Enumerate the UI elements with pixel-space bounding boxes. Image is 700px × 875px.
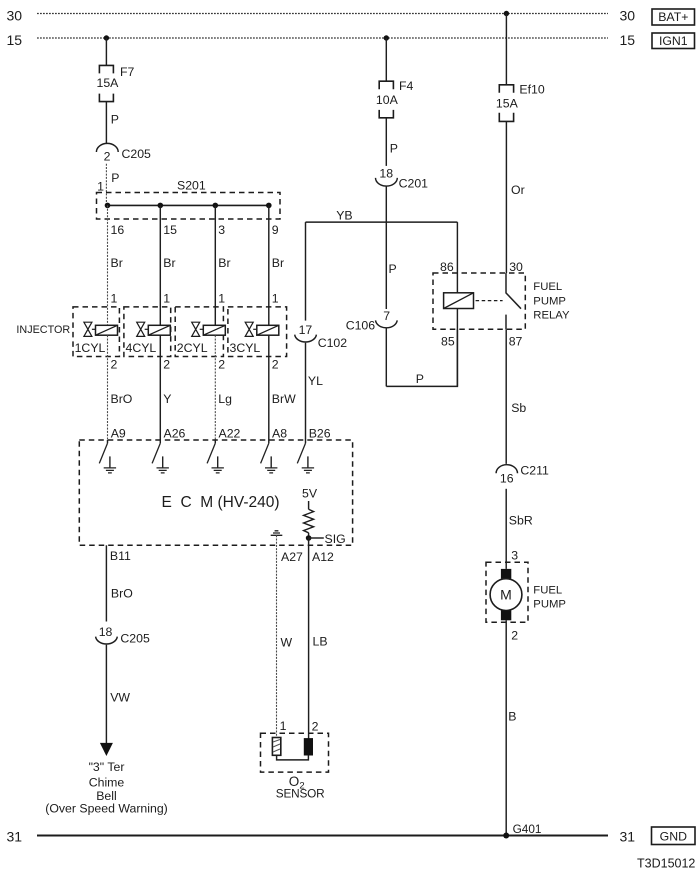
svg-text:2: 2 (312, 719, 319, 733)
svg-text:C205: C205 (122, 147, 152, 161)
svg-text:85: 85 (441, 334, 455, 348)
svg-text:B: B (508, 710, 516, 724)
injector 3CYL (228, 307, 287, 357)
wire injector 1CYL to ECM pin A9 (107, 335, 109, 440)
svg-text:15: 15 (7, 32, 23, 48)
wire C211 to fuel pump (505, 489, 507, 569)
svg-text:2: 2 (163, 357, 170, 371)
svg-text:18: 18 (379, 167, 393, 181)
ground inside ECM for pin A9 (104, 456, 116, 473)
svg-text:Br: Br (218, 256, 230, 270)
svg-text:A27: A27 (281, 550, 303, 564)
wire 15 to F7 (105, 38, 107, 65)
wire bus 31 (37, 835, 608, 837)
junction splice 2 (158, 203, 164, 209)
svg-text:A22: A22 (219, 427, 241, 441)
svg-text:P: P (416, 372, 424, 386)
svg-text:15A: 15A (97, 76, 120, 90)
label FUEL PUMP (533, 585, 566, 611)
svg-text:F7: F7 (120, 65, 135, 79)
svg-text:2: 2 (111, 357, 118, 371)
svg-text:15A: 15A (496, 97, 519, 111)
wire YB horizontal (306, 221, 458, 223)
O2 sensor (261, 733, 329, 800)
svg-text:SENSOR: SENSOR (276, 787, 325, 801)
fuse F7 (99, 65, 113, 101)
svg-text:S201: S201 (177, 179, 206, 193)
svg-text:FUEL: FUEL (533, 281, 562, 293)
ECM U1 (HV-240) (79, 440, 352, 545)
svg-text:3: 3 (511, 549, 518, 563)
svg-text:FUEL: FUEL (533, 585, 562, 597)
fuse Ef10 (499, 85, 513, 122)
connector C211 pin 16 (496, 464, 549, 486)
wire bus 15 (37, 37, 608, 39)
svg-text:3CYL: 3CYL (230, 341, 261, 355)
connector C205 pin 2 (96, 143, 151, 163)
junction on bus 15 at F7 column (104, 35, 109, 40)
svg-text:9: 9 (272, 223, 279, 237)
wire bus 30 (37, 13, 608, 15)
svg-text:"3" Ter: "3" Ter (89, 760, 125, 774)
wire fuel pump to G401 (505, 620, 507, 835)
wire C205 to chime bell (105, 645, 107, 744)
wire F7 to C205 (105, 102, 107, 144)
svg-text:3: 3 (218, 223, 225, 237)
wire resistor to SIG node (308, 533, 310, 538)
wire 15 to F4 (385, 38, 387, 81)
svg-text:2: 2 (218, 357, 225, 371)
svg-text:Lg: Lg (218, 392, 232, 406)
terminal box BAT+ (652, 9, 695, 25)
svg-text:M: M (500, 587, 512, 603)
svg-text:C102: C102 (318, 336, 348, 350)
wire 30 to Ef10 (505, 14, 507, 85)
fuse F4 (379, 81, 393, 118)
svg-text:C106: C106 (346, 319, 376, 333)
svg-text:B26: B26 (309, 427, 331, 441)
wire S201 to injector 4CYL (159, 205, 161, 325)
net label SIG (309, 532, 346, 546)
svg-text:1: 1 (280, 719, 287, 733)
svg-text:GND: GND (660, 830, 687, 844)
svg-text:Or: Or (511, 183, 525, 197)
junction splice 4 (266, 203, 272, 209)
ground inside ECM for pin A22 (212, 456, 224, 473)
svg-text:LB: LB (313, 635, 328, 649)
svg-text:SIG: SIG (325, 532, 346, 546)
svg-text:86: 86 (440, 260, 454, 274)
wire A27 ground to O2 sensor pin 1 (W) (276, 535, 278, 737)
svg-text:1: 1 (111, 292, 118, 306)
svg-text:Ef10: Ef10 (519, 83, 544, 97)
wire 5V to resistor (308, 501, 310, 509)
svg-text:1: 1 (163, 292, 170, 306)
wire S201 to injector 1CYL (107, 205, 109, 325)
wire C201 to C106 (385, 186, 387, 309)
injector 2CYL (175, 307, 225, 357)
svg-text:VW: VW (110, 691, 130, 705)
svg-text:31: 31 (7, 829, 23, 845)
svg-text:W: W (281, 635, 293, 649)
svg-text:Br: Br (272, 256, 284, 270)
wire relay pin 87 to C211 (505, 329, 507, 464)
svg-text:30: 30 (620, 8, 636, 24)
svg-text:1: 1 (218, 292, 225, 306)
wire YB to relay pin 86 (456, 222, 458, 293)
wire S201 to injector 2CYL (214, 205, 216, 325)
svg-text:5V: 5V (302, 487, 318, 501)
wire C205 to S201 (105, 164, 107, 206)
svg-text:IGN1: IGN1 (659, 34, 688, 48)
svg-text:15: 15 (163, 223, 177, 237)
svg-text:10A: 10A (376, 93, 399, 107)
svg-text:YL: YL (308, 374, 323, 388)
splice S201 box (97, 193, 281, 220)
svg-text:18: 18 (99, 625, 113, 639)
svg-text:Y: Y (163, 392, 171, 406)
svg-text:PUMP: PUMP (533, 295, 566, 307)
wire C106 down (385, 329, 387, 387)
destination label chime bell (45, 760, 168, 815)
svg-text:Sb: Sb (511, 401, 526, 415)
svg-text:RELAY: RELAY (533, 310, 570, 322)
svg-text:17: 17 (299, 323, 313, 337)
wire injector 4CYL to ECM pin A26 (159, 335, 161, 440)
svg-text:Br: Br (111, 256, 123, 270)
svg-text:F4: F4 (399, 79, 414, 93)
driver switch inside ECM for pin B26 (305, 440, 307, 443)
svg-text:SbR: SbR (509, 513, 533, 527)
svg-text:C211: C211 (520, 464, 549, 478)
relay fuel pump relay (433, 273, 525, 386)
svg-text:Br: Br (163, 256, 175, 270)
svg-text:INJECTOR: INJECTOR (16, 324, 70, 336)
svg-text:P: P (389, 262, 397, 276)
svg-text:E C M (HV-240): E C M (HV-240) (162, 494, 280, 511)
svg-text:1: 1 (272, 292, 279, 306)
svg-text:2: 2 (511, 629, 518, 643)
resistor pull-up inside ECM (304, 509, 314, 533)
svg-text:2: 2 (272, 357, 279, 371)
arrow to chime bell (100, 743, 113, 756)
wire injector 3CYL to ECM pin A8 (268, 335, 270, 440)
junction splice 1 (105, 203, 111, 209)
splice bus wire (108, 204, 269, 206)
connector C201 pin 18 (376, 167, 429, 191)
wire P horizontal to relay pin 85 (386, 329, 457, 386)
svg-text:B11: B11 (110, 549, 131, 563)
wire YB to C102 (305, 222, 307, 321)
terminal box IGN1 (652, 33, 695, 49)
fuel pump motor M (486, 562, 528, 622)
svg-text:P: P (390, 141, 398, 155)
junction splice 3 (213, 203, 219, 209)
svg-text:A8: A8 (272, 427, 287, 441)
svg-text:4CYL: 4CYL (126, 341, 157, 355)
svg-text:1: 1 (97, 180, 104, 194)
svg-text:15: 15 (620, 32, 636, 48)
driver switch inside ECM for pin A9 (107, 440, 109, 443)
svg-text:30: 30 (7, 8, 23, 24)
svg-text:(Over Speed Warning): (Over Speed Warning) (45, 801, 168, 815)
svg-text:C201: C201 (399, 176, 429, 190)
svg-text:30: 30 (509, 260, 523, 274)
connector C106 pin 7 (346, 309, 398, 333)
svg-text:T3D15012: T3D15012 (637, 857, 695, 871)
svg-text:A12: A12 (312, 550, 334, 564)
svg-text:YB: YB (336, 209, 352, 223)
svg-text:16: 16 (111, 223, 125, 237)
svg-text:7: 7 (383, 309, 390, 323)
wire SIG/A12 to O2 sensor pin 2 (LB) (308, 538, 310, 739)
svg-text:G401: G401 (513, 822, 542, 836)
svg-text:P: P (111, 113, 119, 127)
wire F4 to C201 (385, 118, 387, 166)
ground inside ECM for pin A8 (265, 456, 277, 473)
svg-text:A9: A9 (111, 427, 126, 441)
wire injector 2CYL to ECM pin A22 (214, 335, 216, 440)
ground inside ECM for pin A26 (157, 456, 169, 473)
junction on bus 15 at F4 column (384, 35, 389, 40)
label FUEL PUMP RELAY (533, 281, 570, 322)
svg-text:BrW: BrW (272, 392, 296, 406)
svg-text:P: P (111, 171, 119, 185)
svg-text:BrO: BrO (111, 586, 133, 600)
svg-text:BAT+: BAT+ (658, 10, 688, 24)
ground inside ECM at pin A27 (inverted) (271, 531, 283, 536)
terminal box GND (652, 827, 696, 845)
svg-text:87: 87 (509, 334, 523, 348)
svg-text:16: 16 (500, 471, 514, 485)
injector 1CYL (73, 307, 119, 357)
svg-text:BrO: BrO (111, 392, 133, 406)
driver switch inside ECM for pin A8 (268, 440, 270, 443)
svg-text:2CYL: 2CYL (177, 341, 208, 355)
driver switch inside ECM for pin A26 (159, 440, 161, 443)
ground inside ECM for pin B26 (302, 456, 314, 473)
svg-text:A26: A26 (164, 427, 186, 441)
ground junction G401 (503, 833, 509, 839)
svg-text:Chime: Chime (89, 776, 125, 790)
wire S201 to injector 3CYL (268, 205, 270, 325)
wire ECM B11 to C205 (105, 545, 107, 621)
svg-text:1CYL: 1CYL (75, 341, 106, 355)
svg-text:31: 31 (620, 829, 636, 845)
connector C102 pin 17 (295, 323, 348, 350)
wire Ef10 to relay pin 30 (505, 121, 507, 273)
node SIG junction (306, 535, 312, 541)
connector C205 pin 18 (96, 625, 150, 645)
svg-text:C205: C205 (120, 632, 150, 646)
driver switch inside ECM for pin A22 (214, 440, 216, 443)
injector 4CYL (124, 307, 171, 357)
svg-text:PUMP: PUMP (533, 599, 566, 611)
svg-text:2: 2 (104, 150, 111, 164)
junction on bus 30 at Ef10 column (504, 11, 509, 16)
wire C102 to ECM pin B26 (305, 343, 307, 440)
